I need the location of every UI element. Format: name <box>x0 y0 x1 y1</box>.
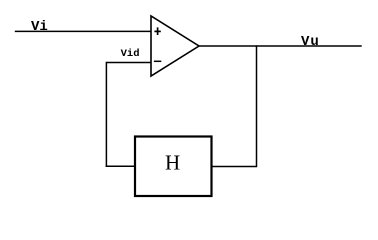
svg-text:Vu: Vu <box>301 34 320 50</box>
svg-text:Vid: Vid <box>121 48 140 60</box>
svg-text:Vi: Vi <box>31 19 48 35</box>
svg-text:H: H <box>165 151 180 175</box>
